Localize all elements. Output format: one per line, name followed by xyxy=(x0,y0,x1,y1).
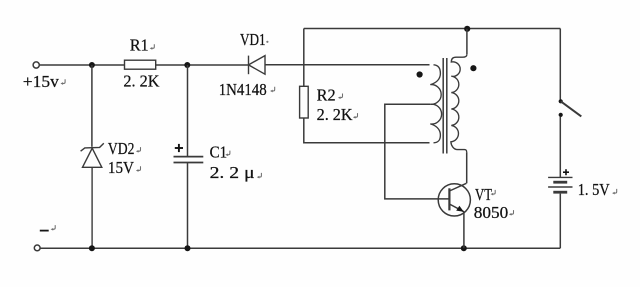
terminal minus xyxy=(34,245,40,251)
resistor R1 xyxy=(125,60,156,69)
switch S contact bottom xyxy=(559,113,563,117)
mark after 1.5V xyxy=(612,189,617,195)
switch S contact top xyxy=(559,99,563,103)
svg-text:+15v: +15v xyxy=(23,72,60,91)
wire C1 vertical top xyxy=(187,65,189,156)
transistor VT body circle xyxy=(438,184,470,216)
svg-text:R1: R1 xyxy=(130,36,149,55)
wire C1 vertical bottom xyxy=(187,163,189,248)
zener diode VD2 xyxy=(81,143,104,248)
wire top-left horizontal xyxy=(39,64,124,66)
emitter arrow head xyxy=(456,206,464,212)
svg-text:1N4148: 1N4148 xyxy=(219,80,267,99)
transistor emitter line xyxy=(449,204,464,212)
svg-text:C1: C1 xyxy=(210,143,228,162)
wire R2 bottom to primary bottom xyxy=(304,118,430,143)
wire R2 vertical from top rail xyxy=(303,29,305,87)
svg-text:2. 2K: 2. 2K xyxy=(123,72,160,91)
svg-text:2. 2K: 2. 2K xyxy=(317,105,354,124)
svg-text:1. 5V: 1. 5V xyxy=(578,180,610,199)
mark after minus xyxy=(51,225,56,231)
node junction VD2-bottom xyxy=(89,245,95,251)
node junction R1-left/VD2 xyxy=(89,62,95,68)
wire secondary bottom to collector xyxy=(466,152,468,183)
wire R1 to VD1 xyxy=(156,64,249,66)
wire VD2 vertical xyxy=(91,65,93,147)
mark after R1 xyxy=(150,44,155,50)
resistor R2 xyxy=(300,86,309,118)
label minus terminal xyxy=(40,230,49,232)
battery cell 1 long plate xyxy=(548,176,572,178)
node junction top rail / secondary top xyxy=(464,26,470,32)
mark after 2.2u xyxy=(257,173,262,179)
switch blade xyxy=(561,101,582,116)
wire top rail xyxy=(304,28,561,30)
transformer T secondary winding xyxy=(451,54,467,152)
mark after 2.2K R2 xyxy=(353,113,358,119)
battery cell 2 short plate xyxy=(553,191,567,194)
svg-text:VT: VT xyxy=(475,185,492,204)
svg-text:VD2: VD2 xyxy=(108,139,134,158)
battery GB plus mark xyxy=(563,169,569,175)
wire emitter to bottom rail xyxy=(463,212,465,249)
svg-text:2. 2 μ: 2. 2 μ xyxy=(210,163,255,182)
wire secondary top to rail xyxy=(466,29,468,54)
wire bottom rail xyxy=(40,247,560,249)
wire VD1 anode to transformer primary top xyxy=(265,64,430,66)
svg-text:VD1: VD1 xyxy=(240,30,266,49)
node junction R1-right/C1 xyxy=(184,62,190,68)
mark after VT xyxy=(491,190,496,196)
mark after +15v xyxy=(61,79,66,85)
wire battery to bottom rail xyxy=(559,194,561,249)
capacitor C1 xyxy=(174,157,204,163)
svg-text:15V: 15V xyxy=(108,158,135,177)
mark after 1N4148 xyxy=(270,87,275,93)
mark after VD1 xyxy=(266,41,268,43)
battery cell 2 long plate xyxy=(548,186,572,188)
terminal +15v xyxy=(33,62,39,68)
wire right rail down to switch xyxy=(559,29,561,101)
transistor collector line xyxy=(449,183,466,191)
transformer T primary winding xyxy=(430,65,441,143)
battery cell 1 short plate xyxy=(553,181,567,184)
transformer core xyxy=(443,58,447,154)
wire primary mid-tap to base xyxy=(385,104,450,199)
mark after 15V xyxy=(136,166,141,172)
mark after R2 xyxy=(338,94,343,100)
node junction C1-bottom xyxy=(185,245,191,251)
transistor base bar xyxy=(448,188,450,210)
C1 plus polarity mark xyxy=(175,144,183,152)
mark after VD2 xyxy=(136,147,141,153)
diode VD1 xyxy=(249,56,266,75)
primary polarity dot xyxy=(417,71,423,77)
node junction emitter-bottom xyxy=(461,245,467,251)
secondary polarity dot xyxy=(470,65,476,71)
mark after C1 xyxy=(225,151,230,157)
mark after 8050 xyxy=(509,210,514,216)
wire switch to battery xyxy=(559,117,561,177)
svg-text:8050: 8050 xyxy=(474,203,509,222)
svg-text:R2: R2 xyxy=(317,85,336,104)
